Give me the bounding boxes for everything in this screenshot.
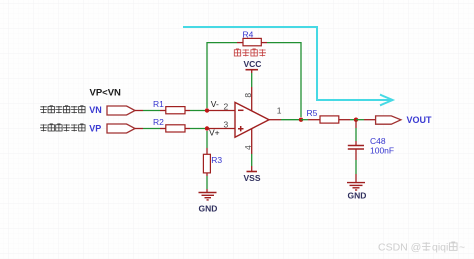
svg-text:100nF: 100nF bbox=[370, 146, 394, 156]
wire R3 to GND bbox=[206, 176, 208, 193]
op-amp U1 bbox=[207, 87, 282, 154]
pin 1 bbox=[269, 119, 281, 121]
svg-text:R1: R1 bbox=[153, 99, 164, 109]
wire feedback right bbox=[267, 43, 301, 117]
svg-text:~: ~ bbox=[459, 242, 465, 254]
label 差分同向输入 bbox=[40, 124, 85, 131]
resistor R5 bbox=[307, 108, 351, 123]
power VCC bbox=[244, 59, 262, 73]
wire node to R5 bbox=[301, 119, 308, 121]
wire R5 to node VOUT bbox=[350, 119, 356, 121]
svg-text:VP<VN: VP<VN bbox=[90, 88, 122, 99]
port VN bbox=[107, 106, 135, 115]
wire VCC to pin 8 bbox=[251, 73, 253, 87]
svg-text:R3: R3 bbox=[211, 155, 222, 165]
svg-text:R2: R2 bbox=[153, 117, 164, 127]
capacitor C48 bbox=[348, 136, 394, 160]
node output bbox=[299, 118, 303, 122]
wire feedback left bbox=[207, 43, 237, 108]
svg-text:CSDN @: CSDN @ bbox=[378, 242, 421, 254]
wire port VP to R2 bbox=[135, 128, 160, 130]
svg-text:3: 3 bbox=[224, 120, 229, 130]
label 反馈电阻 bbox=[234, 49, 266, 56]
resistor R1 bbox=[153, 99, 190, 114]
svg-text:VSS: VSS bbox=[244, 173, 261, 183]
node VOUT bbox=[354, 118, 358, 122]
wire node to port VOUT bbox=[356, 119, 376, 121]
node V- bbox=[205, 108, 209, 112]
ground GND (at R3) bbox=[199, 193, 218, 214]
port VP bbox=[107, 124, 135, 133]
op-amp body bbox=[235, 102, 269, 137]
resistor R3 bbox=[203, 148, 222, 176]
wire node VOUT to C48 bbox=[355, 120, 357, 141]
minus sign bbox=[238, 109, 244, 111]
port VOUT bbox=[376, 116, 401, 124]
svg-text:GND: GND bbox=[199, 204, 218, 214]
svg-text:2: 2 bbox=[224, 102, 229, 112]
svg-text:R4: R4 bbox=[243, 30, 254, 40]
wire R1 to node V- bbox=[190, 110, 207, 112]
svg-text:VN: VN bbox=[89, 105, 102, 115]
pin 3 bbox=[207, 128, 235, 130]
svg-text:qiqi: qiqi bbox=[432, 242, 448, 254]
pin 2 bbox=[207, 110, 235, 112]
wire pin 1 to output node bbox=[281, 119, 301, 121]
pin 4 bbox=[251, 128, 253, 154]
svg-text:VCC: VCC bbox=[244, 59, 262, 69]
power VSS bbox=[244, 166, 261, 183]
wire pin 4 to VSS bbox=[251, 154, 253, 166]
wire R2 to node V+ bbox=[190, 128, 207, 130]
node V+ bbox=[205, 126, 209, 130]
wire port VN to R1 bbox=[135, 110, 160, 112]
resistor R4 bbox=[237, 30, 267, 46]
plus sign bbox=[238, 126, 244, 131]
resistor R2 bbox=[153, 117, 190, 132]
svg-text:C48: C48 bbox=[370, 136, 386, 146]
svg-text:R5: R5 bbox=[307, 108, 318, 118]
pin 8 bbox=[251, 87, 253, 112]
annotation arrow bbox=[183, 27, 393, 105]
svg-text:V-: V- bbox=[211, 99, 219, 109]
svg-text:VP: VP bbox=[89, 123, 101, 133]
svg-text:GND: GND bbox=[348, 190, 367, 200]
ground GND (at C48) bbox=[347, 174, 366, 200]
watermark CSDN bbox=[378, 242, 465, 254]
wire node V+ to R3 bbox=[206, 131, 208, 148]
svg-text:1: 1 bbox=[277, 106, 282, 116]
label 差分反向输入 bbox=[40, 106, 85, 113]
svg-text:VOUT: VOUT bbox=[407, 115, 433, 125]
svg-text:4: 4 bbox=[243, 145, 253, 150]
wire C48 to GND bbox=[355, 160, 357, 174]
svg-text:8: 8 bbox=[243, 93, 253, 98]
